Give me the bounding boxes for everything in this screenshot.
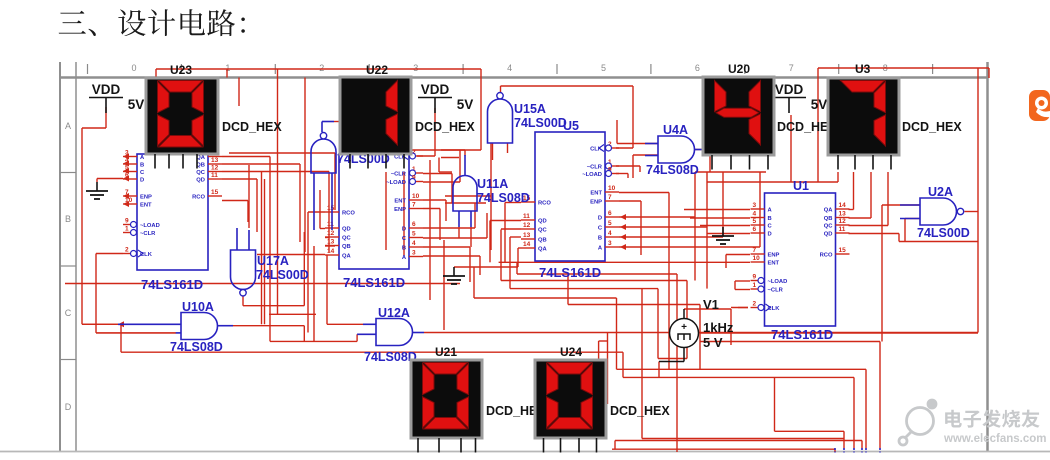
- svg-text:ENT: ENT: [394, 198, 406, 204]
- svg-text:RCO: RCO: [192, 194, 205, 200]
- svg-text:RCO: RCO: [342, 210, 355, 216]
- svg-text:74LS161D: 74LS161D: [539, 265, 601, 280]
- svg-text:U1: U1: [793, 179, 809, 193]
- svg-text:4: 4: [753, 211, 757, 218]
- svg-text:~LOAD: ~LOAD: [768, 279, 788, 285]
- svg-text:QD: QD: [196, 177, 205, 183]
- svg-text:U24: U24: [560, 345, 582, 359]
- svg-text:ENT: ENT: [768, 260, 780, 266]
- svg-text:DCD_HEX: DCD_HEX: [902, 120, 962, 134]
- svg-text:13: 13: [327, 239, 335, 246]
- svg-text:U11A: U11A: [477, 177, 508, 191]
- svg-text:QB: QB: [538, 237, 547, 243]
- svg-text:6: 6: [753, 226, 757, 233]
- svg-text:~CLR: ~CLR: [768, 287, 784, 293]
- svg-text:15: 15: [327, 205, 335, 212]
- svg-text:U23: U23: [170, 63, 192, 77]
- svg-text:9: 9: [125, 218, 129, 225]
- svg-text:10: 10: [608, 185, 616, 192]
- svg-text:ENT: ENT: [590, 190, 602, 196]
- svg-text:5V: 5V: [811, 97, 828, 112]
- svg-text:U12A: U12A: [378, 306, 410, 320]
- svg-text:7: 7: [608, 194, 612, 201]
- svg-text:1kHz: 1kHz: [703, 320, 734, 335]
- svg-text:VDD: VDD: [775, 82, 804, 97]
- svg-text:2: 2: [125, 247, 129, 254]
- svg-text:QD: QD: [342, 226, 351, 232]
- svg-text:7: 7: [789, 63, 794, 73]
- svg-text:~LOAD: ~LOAD: [582, 172, 602, 178]
- svg-text:7: 7: [412, 202, 416, 209]
- svg-text:2: 2: [319, 63, 324, 73]
- svg-text:13: 13: [523, 232, 531, 239]
- svg-text:U17A: U17A: [257, 254, 289, 268]
- svg-text:U4A: U4A: [663, 123, 688, 137]
- svg-text:VDD: VDD: [421, 82, 450, 97]
- svg-text:3: 3: [413, 63, 418, 73]
- svg-text:10: 10: [753, 255, 761, 262]
- svg-text:12: 12: [839, 218, 847, 225]
- svg-text:5 V: 5 V: [703, 335, 723, 350]
- svg-text:U15A: U15A: [514, 102, 546, 116]
- svg-text:74LS161D: 74LS161D: [771, 327, 833, 342]
- svg-text:1: 1: [753, 282, 757, 289]
- svg-text:U20: U20: [728, 62, 750, 76]
- svg-text:QD: QD: [538, 218, 547, 224]
- svg-text:12: 12: [327, 230, 335, 237]
- svg-text:3: 3: [608, 240, 612, 247]
- svg-text:74LS00D: 74LS00D: [514, 116, 567, 130]
- svg-text:B: B: [402, 245, 406, 251]
- svg-text:74LS08D: 74LS08D: [170, 340, 223, 354]
- svg-text:6: 6: [125, 172, 129, 179]
- svg-text:3: 3: [753, 202, 757, 209]
- svg-text:DCD_HEX: DCD_HEX: [610, 404, 670, 418]
- svg-text:1: 1: [125, 226, 129, 233]
- svg-text:U2A: U2A: [928, 185, 953, 199]
- svg-text:DCD_HE: DCD_HE: [777, 120, 828, 134]
- svg-text:13: 13: [839, 211, 847, 218]
- svg-text:14: 14: [327, 248, 335, 255]
- svg-text:3: 3: [412, 250, 416, 257]
- svg-text:74LS161D: 74LS161D: [343, 275, 405, 290]
- svg-text:5: 5: [608, 220, 612, 227]
- svg-text:ENP: ENP: [140, 194, 152, 200]
- svg-text:11: 11: [327, 221, 334, 228]
- svg-text:QD: QD: [824, 231, 833, 237]
- svg-text:RCO: RCO: [820, 252, 833, 258]
- svg-text:12: 12: [523, 222, 531, 229]
- svg-text:QA: QA: [538, 246, 548, 252]
- svg-text:VDD: VDD: [92, 82, 121, 97]
- svg-text:11: 11: [523, 213, 530, 220]
- svg-text:ENP: ENP: [394, 207, 406, 213]
- svg-text:~CLR: ~CLR: [140, 231, 156, 237]
- svg-text:15: 15: [211, 189, 219, 196]
- svg-text:DCD_HE: DCD_HE: [486, 404, 537, 418]
- svg-text:C: C: [65, 308, 72, 318]
- svg-text:RCO: RCO: [538, 200, 551, 206]
- svg-text:QB: QB: [824, 216, 833, 222]
- svg-text:3: 3: [125, 150, 129, 157]
- svg-text:DCD_HEX: DCD_HEX: [415, 120, 475, 134]
- svg-text:~LOAD: ~LOAD: [140, 223, 160, 229]
- svg-text:B: B: [65, 214, 71, 224]
- svg-text:U3: U3: [855, 62, 871, 76]
- svg-text:B: B: [598, 235, 602, 241]
- svg-text:12: 12: [211, 165, 219, 172]
- svg-text:D: D: [402, 226, 406, 232]
- svg-text:~CLR: ~CLR: [391, 171, 407, 177]
- svg-text:U21: U21: [435, 345, 457, 359]
- svg-text:0: 0: [131, 63, 136, 73]
- svg-text:74LS08D: 74LS08D: [477, 191, 530, 205]
- svg-text:7: 7: [125, 189, 129, 196]
- svg-text:1: 1: [225, 63, 230, 73]
- svg-text:4: 4: [412, 240, 416, 247]
- svg-text:74LS00D: 74LS00D: [256, 268, 309, 282]
- svg-text:QC: QC: [196, 170, 206, 176]
- svg-text:14: 14: [839, 202, 847, 209]
- svg-text:9: 9: [753, 274, 757, 281]
- svg-text:74LS00D: 74LS00D: [917, 226, 970, 240]
- svg-text:5V: 5V: [457, 97, 474, 112]
- svg-text:~CLR: ~CLR: [587, 164, 603, 170]
- svg-text:14: 14: [523, 241, 531, 248]
- svg-text:11: 11: [839, 226, 846, 233]
- svg-text:7: 7: [753, 247, 757, 254]
- svg-text:D: D: [598, 215, 602, 221]
- svg-text:6: 6: [608, 210, 612, 217]
- svg-text:B: B: [140, 162, 144, 168]
- svg-text:13: 13: [211, 157, 219, 164]
- svg-text:QC: QC: [342, 235, 352, 241]
- svg-text:6: 6: [695, 63, 700, 73]
- svg-text:QC: QC: [824, 223, 834, 229]
- svg-text:D: D: [768, 231, 772, 237]
- svg-text:~LOAD: ~LOAD: [386, 180, 406, 186]
- svg-text:ENP: ENP: [768, 252, 780, 258]
- svg-text:QC: QC: [538, 227, 548, 233]
- svg-text:74LS161D: 74LS161D: [141, 277, 203, 292]
- svg-text:11: 11: [211, 172, 218, 179]
- svg-text:5: 5: [412, 231, 416, 238]
- svg-text:5V: 5V: [128, 97, 145, 112]
- svg-text:U22: U22: [366, 63, 388, 77]
- svg-text:D: D: [65, 402, 72, 412]
- svg-text:5: 5: [125, 165, 129, 172]
- svg-text:5: 5: [601, 63, 606, 73]
- svg-text:74LS08D: 74LS08D: [646, 163, 699, 177]
- svg-text:6: 6: [412, 221, 416, 228]
- svg-text:74LS08D: 74LS08D: [364, 350, 417, 364]
- svg-text:2: 2: [753, 301, 757, 308]
- svg-text:4: 4: [507, 63, 512, 73]
- svg-text:ENP: ENP: [590, 199, 602, 205]
- svg-text:D: D: [140, 177, 144, 183]
- svg-text:QA: QA: [342, 253, 352, 259]
- svg-text:A: A: [65, 121, 71, 131]
- svg-text:4: 4: [608, 230, 612, 237]
- svg-text:QB: QB: [342, 244, 351, 250]
- svg-text:www.elecfans.com: www.elecfans.com: [943, 433, 1046, 445]
- svg-text:4: 4: [125, 157, 129, 164]
- svg-text:DCD_HEX: DCD_HEX: [222, 120, 282, 134]
- svg-text:U10A: U10A: [182, 300, 214, 314]
- svg-text:10: 10: [125, 197, 133, 204]
- svg-text:15: 15: [839, 247, 847, 254]
- svg-text:ENT: ENT: [140, 202, 152, 208]
- svg-text:10: 10: [412, 193, 420, 200]
- svg-text:QA: QA: [824, 207, 834, 213]
- svg-text:B: B: [768, 216, 772, 222]
- svg-text:5: 5: [753, 218, 757, 225]
- svg-text:V1: V1: [703, 297, 719, 312]
- svg-text:+: +: [681, 322, 687, 333]
